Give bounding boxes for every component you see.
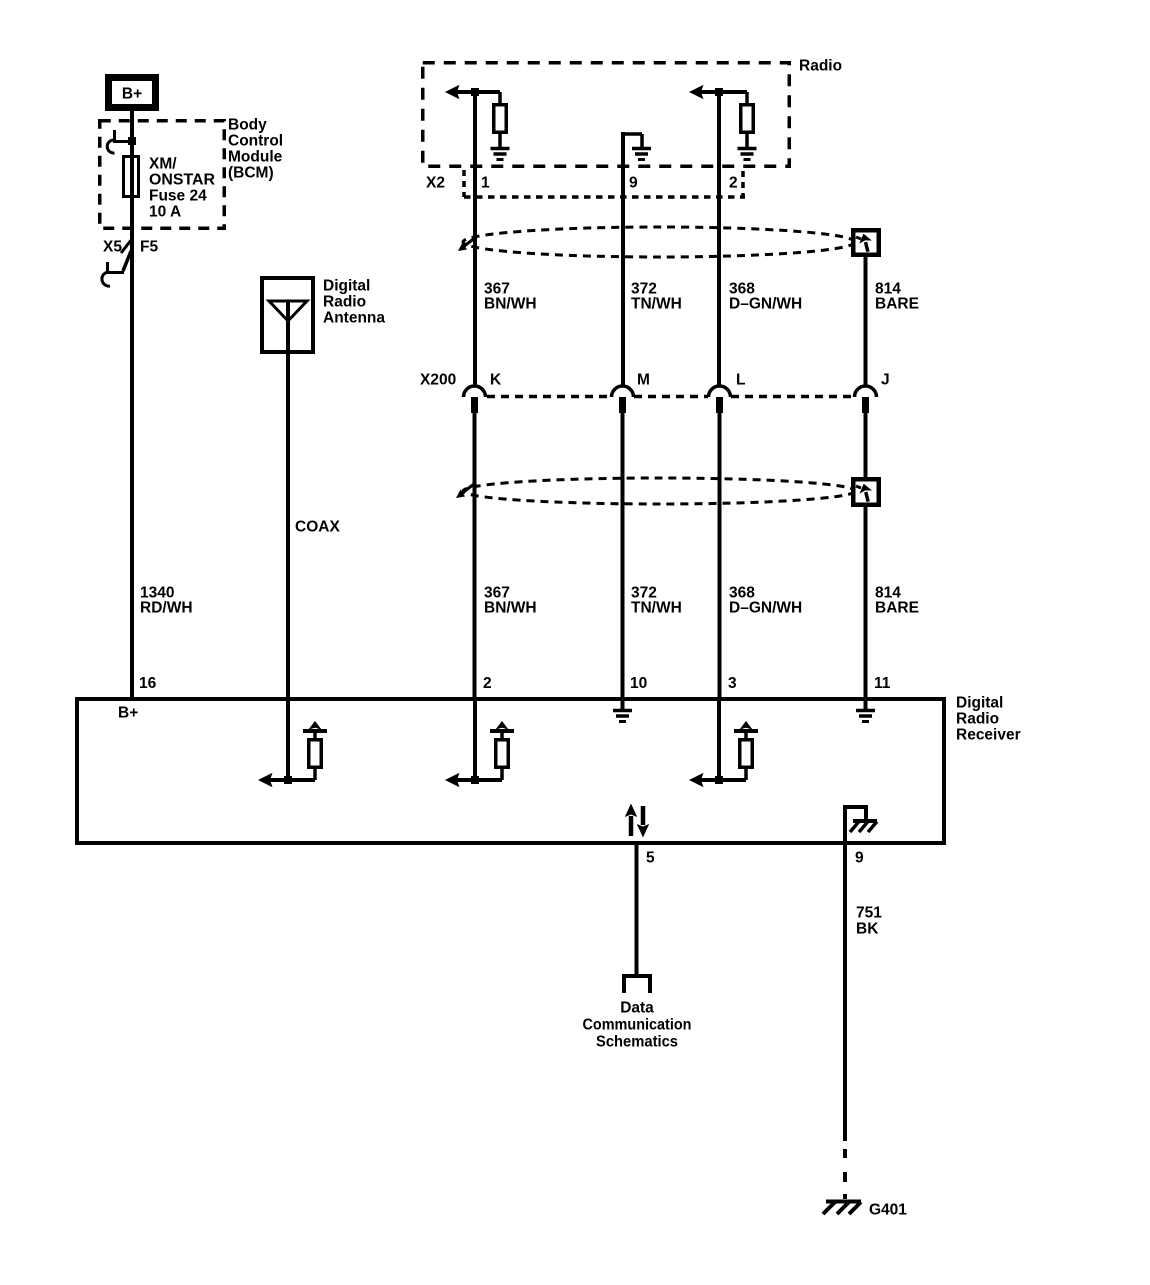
svg-text:3: 3 xyxy=(728,675,737,692)
svg-text:M: M xyxy=(637,372,650,389)
svg-text:Digital: Digital xyxy=(323,278,370,295)
svg-text:10 A: 10 A xyxy=(149,204,181,221)
svg-text:BK: BK xyxy=(856,921,879,938)
svg-text:5: 5 xyxy=(646,850,655,867)
svg-text:BARE: BARE xyxy=(875,600,919,617)
svg-text:Fuse 24: Fuse 24 xyxy=(149,188,207,205)
svg-text:X5: X5 xyxy=(103,239,122,256)
svg-text:BN/WH: BN/WH xyxy=(484,296,537,313)
svg-text:TN/WH: TN/WH xyxy=(631,600,682,617)
svg-text:16: 16 xyxy=(139,675,157,692)
svg-text:Radio: Radio xyxy=(956,711,999,728)
svg-text:Data: Data xyxy=(620,1000,654,1017)
svg-text:RD/WH: RD/WH xyxy=(140,600,193,617)
svg-text:1: 1 xyxy=(481,175,490,192)
svg-text:D–GN/WH: D–GN/WH xyxy=(729,296,802,313)
svg-text:Schematics: Schematics xyxy=(596,1034,678,1051)
svg-text:Digital: Digital xyxy=(956,695,1003,712)
svg-text:2: 2 xyxy=(729,175,738,192)
svg-text:Radio: Radio xyxy=(799,58,842,75)
svg-text:J: J xyxy=(881,372,890,389)
svg-text:BARE: BARE xyxy=(875,296,919,313)
svg-text:B+: B+ xyxy=(122,86,142,103)
svg-text:Module: Module xyxy=(228,149,283,166)
svg-text:11: 11 xyxy=(874,675,891,692)
svg-text:2: 2 xyxy=(483,675,492,692)
svg-text:COAX: COAX xyxy=(295,519,340,536)
svg-text:Radio: Radio xyxy=(323,294,366,311)
svg-text:10: 10 xyxy=(630,675,647,692)
svg-text:9: 9 xyxy=(855,850,864,867)
svg-text:BN/WH: BN/WH xyxy=(484,600,537,617)
svg-text:9: 9 xyxy=(629,175,638,192)
svg-text:D–GN/WH: D–GN/WH xyxy=(729,600,802,617)
svg-text:G401: G401 xyxy=(869,1202,907,1219)
svg-text:751: 751 xyxy=(856,905,882,922)
svg-text:ONSTAR: ONSTAR xyxy=(149,172,215,189)
svg-text:TN/WH: TN/WH xyxy=(631,296,682,313)
svg-text:Receiver: Receiver xyxy=(956,727,1021,744)
svg-text:X2: X2 xyxy=(426,175,445,192)
svg-text:L: L xyxy=(736,372,745,389)
svg-text:X200: X200 xyxy=(420,372,456,389)
svg-text:K: K xyxy=(490,372,502,389)
svg-text:F5: F5 xyxy=(140,239,158,256)
svg-text:Antenna: Antenna xyxy=(323,310,385,327)
svg-text:B+: B+ xyxy=(118,705,138,722)
svg-text:Communication: Communication xyxy=(583,1017,692,1034)
svg-text:XM/: XM/ xyxy=(149,156,177,173)
svg-text:(BCM): (BCM) xyxy=(228,165,274,182)
svg-text:Body: Body xyxy=(228,117,267,134)
svg-text:Control: Control xyxy=(228,133,283,150)
